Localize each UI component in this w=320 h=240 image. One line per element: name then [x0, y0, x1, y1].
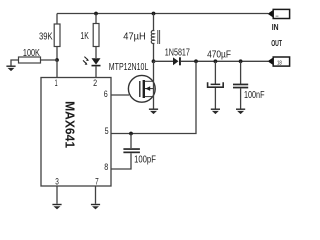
wire 39K top lead: [56, 14, 58, 25]
svg-text:6: 6: [104, 89, 108, 99]
ground G5 below 470uF: [211, 109, 220, 115]
svg-text:470µF: 470µF: [207, 50, 231, 61]
wire pin 7 to ground: [95, 186, 97, 204]
node drain junction: [152, 59, 156, 63]
svg-text:MTP12N10L: MTP12N10L: [109, 62, 149, 73]
ground G1 left of 100K: [6, 66, 15, 72]
node feedback junction: [194, 59, 198, 63]
connector J2 OUT: [268, 57, 290, 67]
svg-text:39K: 39K: [39, 31, 53, 42]
svg-text:18: 18: [277, 60, 282, 66]
node top rail / L1 junction: [152, 12, 156, 16]
resistor R3 1K: [93, 24, 99, 47]
wire pin 6 to gate: [111, 94, 129, 96]
wire feedback vertical: [111, 61, 196, 133]
wire photodiode to pin 2: [95, 66, 97, 77]
svg-text:8: 8: [104, 162, 108, 172]
diode D2 photodiode: [83, 57, 101, 67]
svg-text:1: 1: [55, 78, 58, 88]
wire 1K bottom lead: [95, 47, 97, 59]
node 470uF junction: [214, 59, 218, 63]
svg-text:7: 7: [95, 176, 99, 186]
svg-text:2: 2: [93, 78, 97, 88]
inductor L1 47uH: [151, 30, 159, 44]
svg-text:100pF: 100pF: [134, 155, 156, 166]
transistor Q1 MTP12N10L: [128, 75, 155, 102]
svg-text:5: 5: [105, 126, 109, 136]
svg-text:OUT: OUT: [271, 38, 282, 48]
node 100pF junction: [129, 132, 133, 136]
wire L1 top lead: [153, 14, 156, 31]
wire drain line through Q1 to ground: [153, 61, 155, 108]
ground G6 below 100nF: [236, 109, 245, 115]
svg-text:IN: IN: [272, 22, 279, 32]
wire 100nF top lead: [240, 61, 242, 84]
capacitor C3 100pF: [123, 148, 139, 153]
node top rail / 1K junction: [94, 12, 98, 16]
op-amp U1 MAX641 box: [41, 78, 111, 187]
wire 100K right lead: [41, 59, 58, 61]
wire L1 bottom lead: [153, 43, 156, 61]
wire 100pF bottom to pin 8: [111, 153, 131, 169]
connector J1 IN: [268, 9, 290, 18]
wire 100K left lead: [11, 60, 19, 66]
svg-text:MAX641: MAX641: [62, 101, 77, 148]
wire top rail: [57, 13, 268, 15]
wire 1K top lead: [95, 14, 97, 24]
svg-text:100nF: 100nF: [244, 90, 265, 101]
wire 100pF top lead: [130, 134, 132, 149]
svg-text:1K: 1K: [80, 31, 89, 42]
wire diode anode lead: [154, 60, 174, 62]
wire 100nF bottom lead: [240, 88, 242, 108]
wire junction to pin 1: [56, 60, 58, 78]
wire 470uF top lead: [214, 61, 216, 84]
wire 470uF bottom lead: [214, 88, 216, 109]
capacitor C2 100nF: [233, 84, 248, 89]
resistor R1 39K: [54, 24, 60, 47]
svg-text:3: 3: [55, 176, 59, 186]
node 100nF junction: [239, 59, 243, 63]
svg-text:1N5817: 1N5817: [165, 47, 190, 58]
ground G3 pin 7: [91, 204, 100, 210]
resistor R2 100K: [19, 57, 41, 63]
ground G4 below Q1: [149, 109, 158, 115]
node pin1 junction: [55, 58, 59, 62]
capacitor C1 470uF polarized: [208, 82, 224, 87]
ground G2 pin 3: [52, 204, 61, 210]
wire pin 3 to ground: [56, 186, 58, 204]
diode D1 1N5817: [173, 57, 181, 65]
wire 39K bottom lead: [56, 47, 58, 61]
svg-text:47µH: 47µH: [123, 32, 145, 43]
wire output rail: [181, 60, 268, 62]
